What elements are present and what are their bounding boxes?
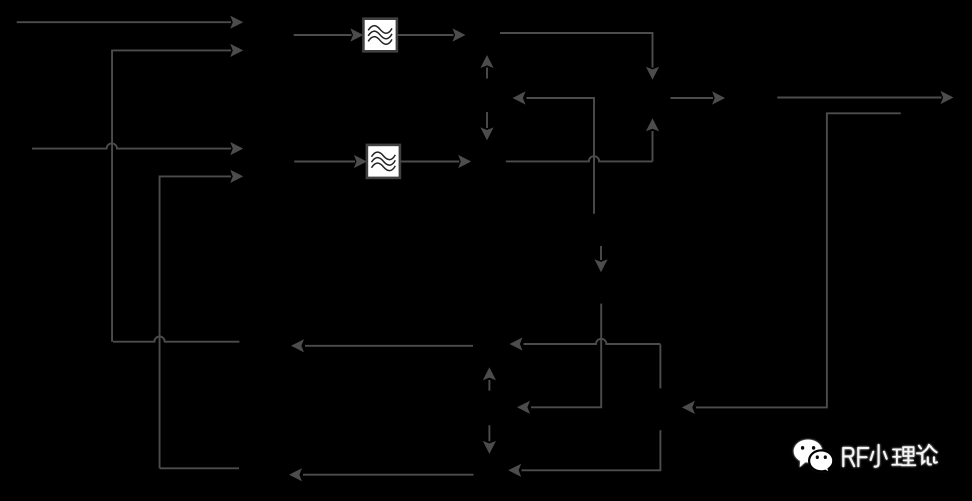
wire LO into quad block, corner at (594,98), arrow left xyxy=(527,98,595,214)
wire RX mixer2 to baseband (left) xyxy=(303,474,474,476)
wire lower loop: from bottom row up left side into block xyxy=(160,467,239,469)
wire LO divider down to RX quad, corner, arrow left xyxy=(531,304,601,408)
arrow mixer1-mixer2 coupling down xyxy=(486,112,488,128)
wire filter FLT1 to mixer xyxy=(397,34,454,36)
watermark glow copy xyxy=(794,440,937,474)
arrow RX mixers coupling up xyxy=(488,380,490,391)
wire PA to antenna output xyxy=(777,97,941,99)
wire RX splitter bottom out to RX mixer2 xyxy=(522,430,661,470)
wire filter FLT2 to mixer2 xyxy=(400,161,459,163)
wire DAC1 to filter FLT1 xyxy=(294,34,352,36)
wire mixer1 out to combiner (corner, down arrow) xyxy=(500,33,653,68)
wire RX mixer1 to baseband (left) xyxy=(305,345,473,347)
wire RX-FB horizontal into left block, hops over x=112 vertical xyxy=(32,143,231,148)
wire TX-Q input with corner, runs down left side xyxy=(113,337,239,342)
wire RX splitter to RX mixer1, hops over LO vertical xyxy=(659,344,661,388)
arrow LO splitter down into divider xyxy=(600,246,602,260)
wire TX-I input xyxy=(17,21,231,23)
wire coupler tap down right side to RX splitter xyxy=(696,113,901,407)
filter FLT1 xyxy=(363,19,397,52)
watermark sharp copy xyxy=(794,440,937,474)
arrow mixer1-mixer2 coupling up xyxy=(486,68,488,79)
wire combiner to PA xyxy=(671,97,714,99)
wire DAC2 to filter FLT2 xyxy=(294,161,355,163)
arrow RX mixers coupling down xyxy=(488,425,490,441)
filter FLT2 xyxy=(367,145,400,178)
wire mixer2 out to combiner, hops over LO vertical, corner, arrow up xyxy=(506,156,653,161)
